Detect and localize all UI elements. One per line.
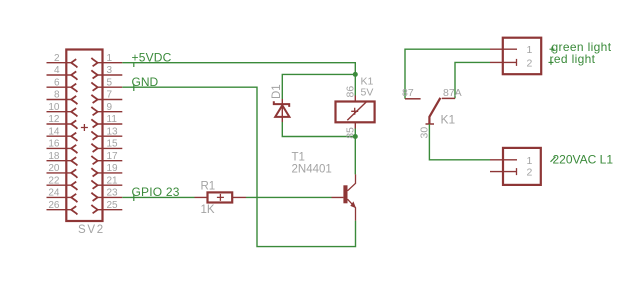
SV2 origin cross [81,124,88,131]
SV2 pin 11 (right stub, pinhead, number) [91,119,122,127]
SV2 pin 14 (left stub, pinhead, number) [47,133,78,141]
svg-text:8: 8 [54,90,60,101]
contact common terminal 30 bar [426,123,435,125]
SV2 pin 23 (right stub, pinhead, number) [91,193,122,201]
SV2 pin 26 (left stub, pinhead, number) [47,206,78,214]
svg-text:20: 20 [48,163,60,174]
wire coil bottom to junction [354,129,356,137]
contact terminal 87A [442,97,455,99]
svg-text:14: 14 [48,126,60,137]
svg-text:5: 5 [107,77,113,88]
SV2 pin 5 (right stub, pinhead, number) [91,82,122,90]
svg-text:25: 25 [107,200,119,211]
SV2 pin 9 (right stub, pinhead, number) [91,107,122,115]
T1 emitter lead with arrow [348,199,357,220]
SV2 pin 22 (left stub, pinhead, number) [47,182,78,190]
contact terminal 87 [405,98,421,100]
svg-text:1: 1 [527,44,533,56]
svg-text:13: 13 [107,126,119,137]
connector SV2 body [66,50,102,222]
SV2 pin 20 (left stub, pinhead, number) [47,169,78,178]
lights connector pin 1 lead [490,48,517,50]
svg-text:6: 6 [54,77,60,88]
SV2 pin 24 (left stub, pinhead, number) [47,194,78,202]
SV2 pin 12 (left stub, pinhead, number) [47,120,78,128]
lights connector pin 2 lead with origin cross [490,59,517,66]
220VAC connector pin 2 lead with origin cross [490,168,517,175]
wire D1 anode to coil bottom node [282,122,355,137]
wire GND: pin5 right, down, along bottom, up to T1 emitter [122,87,355,246]
R1 origin cross [217,194,224,201]
wire R1 to T1 base [246,196,332,198]
svg-text:1: 1 [107,53,113,64]
connector (220VAC) body [503,148,541,185]
wire +5VDC: pin1 to relay coil drop [122,63,355,96]
relay coil K1 bottom pin [354,122,356,128]
svg-text:16: 16 [48,139,60,150]
svg-text:12: 12 [48,114,60,125]
SV2 pin 15 (right stub, pinhead, number) [91,144,122,152]
svg-text:3: 3 [107,65,113,76]
SV2 pin 10 (left stub, pinhead, number) [47,108,78,116]
SV2 pin 3 (right stub, pinhead, number) [91,70,122,78]
net label red light [549,52,596,66]
svg-text:24: 24 [48,188,60,199]
net label GND [132,75,159,91]
net label 220VAC L1 [551,153,614,167]
junction dot coil/D1/collector [353,134,358,139]
svg-text:86: 86 [345,86,357,98]
svg-text:1K: 1K [201,204,215,216]
SV2 pin 25 (right stub, pinhead, number) [91,205,122,213]
wire contact 30 down to 220VAC pin1 [429,124,490,160]
svg-text:17: 17 [107,151,119,162]
svg-text:D1: D1 [271,84,283,99]
SV2 pin 13 (right stub, pinhead, number) [91,131,122,139]
svg-text:T1: T1 [292,151,305,163]
svg-text:+5VDC: +5VDC [132,50,172,64]
svg-text:9: 9 [107,102,113,113]
SV2 pin 21 (right stub, pinhead, number) [91,180,122,188]
SV2 pin 4 (left stub, pinhead, number) [47,71,78,79]
net label green light [550,40,612,54]
svg-text:GPIO 23: GPIO 23 [132,185,180,199]
svg-text:K1: K1 [441,112,456,126]
svg-text:19: 19 [107,163,119,174]
SV2 pin 6 (left stub, pinhead, number) [47,84,78,92]
SV2 pin 17 (right stub, pinhead, number) [91,156,122,164]
diode D1 symbol [274,99,290,122]
relay coil K1 body [336,102,375,123]
svg-text:7: 7 [107,90,113,101]
SV2 pin 1 (right stub, pinhead, number) [91,58,122,66]
svg-text:SV2: SV2 [78,224,105,236]
svg-text:GND: GND [132,75,159,89]
svg-text:2N4401: 2N4401 [292,164,332,176]
connector (lights) body [503,38,541,74]
SV2 pin 18 (left stub, pinhead, number) [47,157,78,165]
relay coil K1 top pin [354,96,356,102]
resistor R1 body [208,192,233,202]
resistor R1 leads [195,196,247,198]
SV2 pin 8 (left stub, pinhead, number) [47,96,78,104]
svg-text:2: 2 [54,53,60,64]
svg-text:21: 21 [107,175,119,186]
220VAC connector pin 1 lead [490,159,517,161]
svg-text:26: 26 [48,200,60,211]
transistor T1 base bar [343,185,347,203]
SV2 pin 19 (right stub, pinhead, number) [91,168,122,176]
svg-text:23: 23 [107,188,119,199]
svg-text:15: 15 [107,139,119,150]
svg-text:5V: 5V [361,87,374,99]
svg-text:10: 10 [48,102,60,113]
wire contact 87A up to red light pin2 [455,62,490,98]
svg-text:1: 1 [527,155,533,167]
svg-text:87: 87 [402,87,414,99]
SV2 pin 2 (left stub, pinhead, number) [47,59,78,67]
SV2 pin 7 (right stub, pinhead, number) [91,95,122,103]
net label +5VDC [132,50,172,67]
svg-text:11: 11 [107,114,118,125]
svg-text:2: 2 [527,167,533,179]
junction dot at +5VDC / coil branch [353,72,358,77]
svg-text:2: 2 [527,57,533,69]
svg-text:220VAC L1: 220VAC L1 [553,153,614,167]
svg-text:4: 4 [54,65,60,76]
T1 collector lead [348,174,356,190]
SV2 pin 16 (left stub, pinhead, number) [47,145,78,153]
wire GPIO 23: pin23 to R1 [122,196,194,198]
svg-text:87A: 87A [443,87,462,99]
svg-text:R1: R1 [201,180,216,192]
svg-text:22: 22 [48,175,60,186]
T1 base lead [332,196,344,198]
wire +5VDC branch to D1 cathode [282,74,355,99]
svg-text:red light: red light [550,52,596,66]
wire contact 87 up to green light pin1 [405,49,490,99]
svg-text:18: 18 [48,151,60,162]
contact movable arm [429,98,440,124]
wire junction down to T1 collector [354,137,356,175]
net label GPIO 23 [132,185,180,201]
